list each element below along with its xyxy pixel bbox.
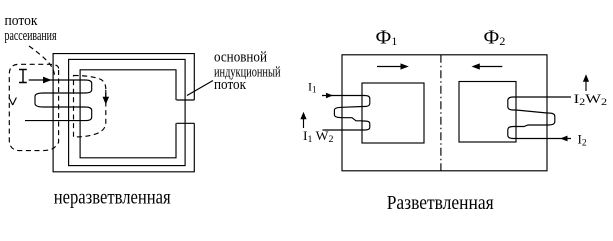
coil bottom lead: [25, 120, 80, 122]
left coil crossing: [342, 118, 362, 121]
svg-text:Ф2: Ф2: [484, 27, 506, 49]
leakage flux inner dashed loop (through window): [74, 76, 106, 138]
right coil upper window bump: [508, 97, 516, 110]
svg-text:I2W2: I2W2: [574, 91, 608, 108]
left coil upper window bump: [362, 96, 370, 107]
svg-text:I2: I2: [578, 132, 587, 149]
core outer outline (right edge interrupted by air gap): [53, 54, 194, 172]
coil W on left limb: top lead with current arrow: [29, 79, 80, 81]
mean magnetic flux path (middle rectangle, crosses air gap): [69, 59, 186, 165]
dashed pointer from leakage text to coil: [29, 46, 55, 75]
right coil bottom lead with I2 current arrowhead: [516, 138, 571, 140]
left coil crossing: [342, 106, 362, 109]
right coil lower window bump: [508, 127, 516, 139]
label I (serif I-beam glyph): [19, 70, 27, 83]
svg-text:основной: основной: [214, 50, 267, 66]
core window outline (right edge interrupted by air gap): [80, 70, 176, 158]
coil window-side bump 1: [80, 80, 92, 93]
leakage flux outer dashed loop: [9, 64, 58, 150]
center limb dash-dot line: [440, 55, 442, 171]
left coil: top lead: [322, 95, 362, 97]
right coil: top lead: [516, 96, 571, 98]
coil outside bump: [35, 93, 46, 107]
right coil crossing: [516, 110, 547, 113]
left coil lower window bump: [362, 121, 370, 130]
left window: [362, 83, 424, 143]
pointer line to air gap (main flux): [187, 81, 213, 96]
core outer rectangle: [342, 55, 547, 171]
svg-text:поток: поток: [214, 77, 247, 93]
coil crossing wire: [46, 106, 80, 108]
right window: [459, 82, 516, 143]
flux arrow 2 (left): [476, 66, 502, 68]
svg-text:Ф1: Ф1: [376, 27, 398, 49]
current arrowhead on top lead: [43, 77, 52, 84]
svg-text:Разветвленная: Разветвленная: [387, 192, 494, 214]
left coil current arrowhead: [326, 93, 333, 99]
air gap cap upper: [177, 99, 195, 101]
coil window-side bump 2: [80, 107, 92, 121]
air gap cap lower: [177, 122, 195, 124]
svg-text:неразветвленная: неразветвленная: [54, 187, 171, 209]
right MMF up arrow: [585, 80, 587, 92]
flux arrow 1 (right): [377, 66, 404, 68]
right coil crossing: [516, 125, 547, 127]
right coil outside bump: [547, 113, 555, 125]
svg-text:рассеивания: рассеивания: [5, 28, 57, 44]
leakage loop down arrowhead (left side): [9, 98, 16, 106]
left coil outside bump: [334, 107, 342, 117]
left MMF up arrow: [303, 117, 305, 129]
inner loop down arrow: [105, 90, 107, 99]
svg-text:I1: I1: [308, 80, 317, 95]
coil crossing wire: [46, 92, 80, 94]
svg-text:поток: поток: [5, 13, 39, 29]
left coil bottom lead: [323, 129, 363, 131]
